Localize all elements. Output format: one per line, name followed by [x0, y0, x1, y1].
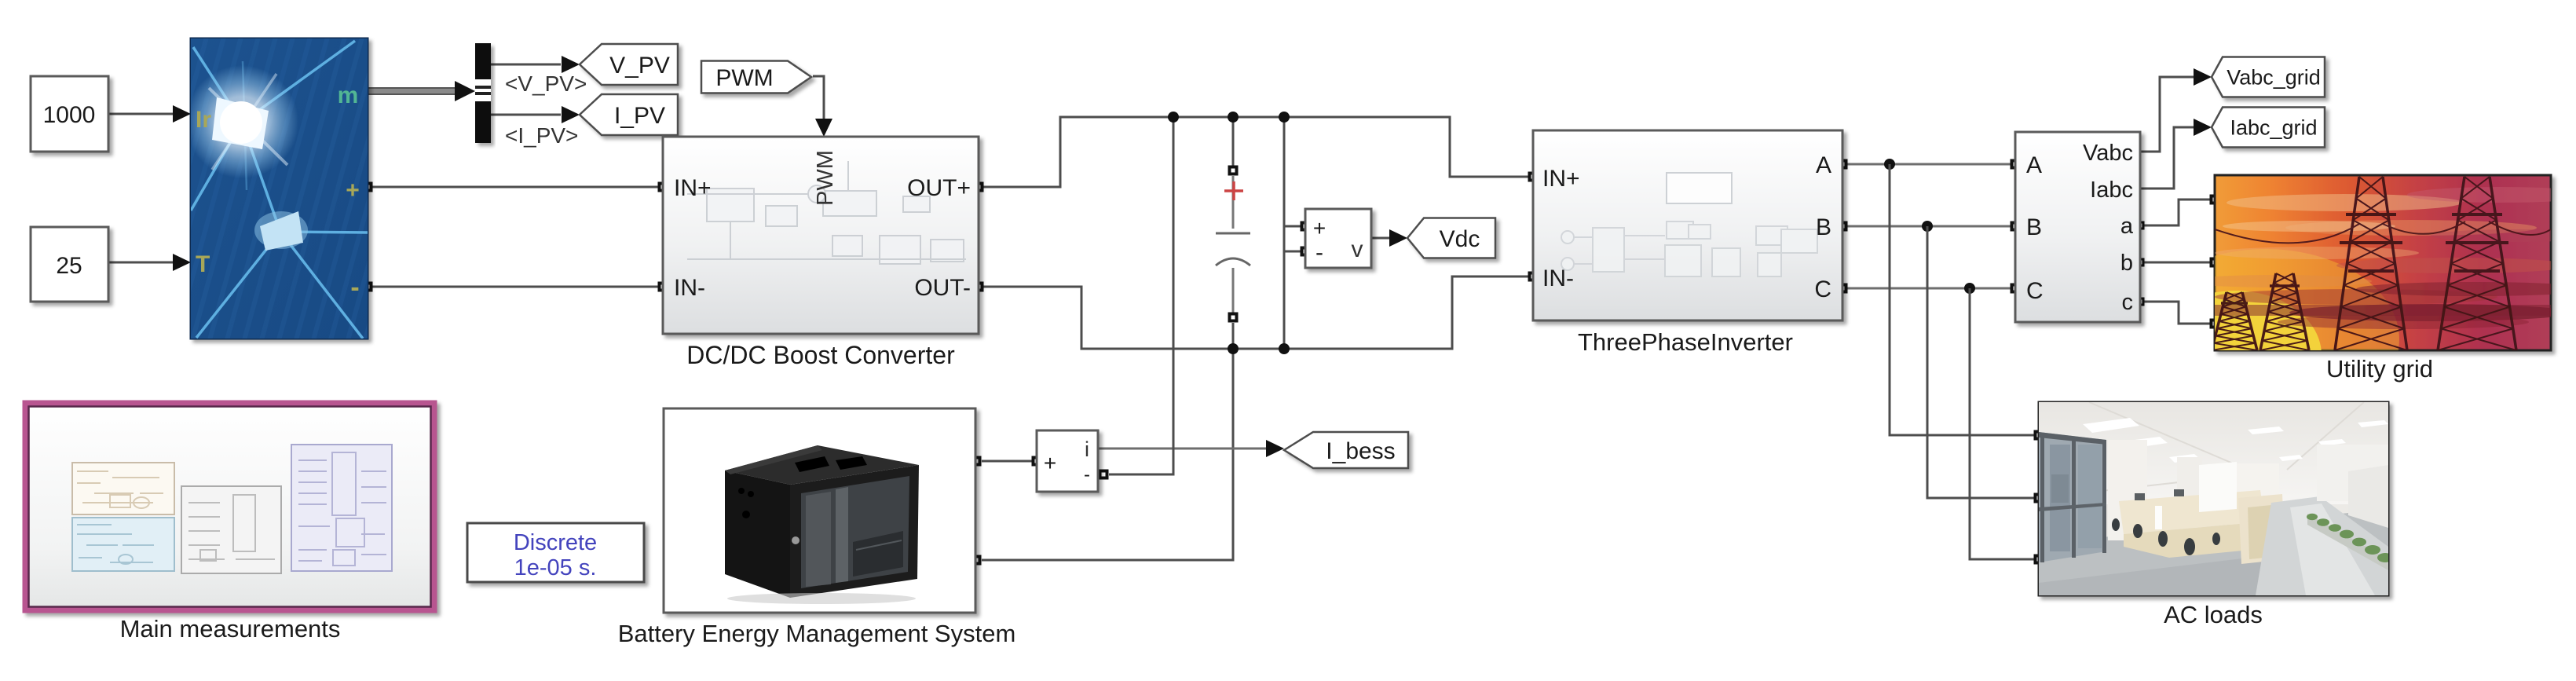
svg-text:V_PV: V_PV [609, 53, 670, 79]
svg-text:<I_PV>: <I_PV> [505, 123, 578, 148]
svg-text:I_PV: I_PV [614, 103, 665, 129]
svg-text:IN-: IN- [674, 275, 705, 301]
svg-text:-: - [350, 273, 359, 302]
svg-text:Vdc: Vdc [1440, 226, 1480, 252]
svg-text:c: c [2122, 290, 2134, 315]
svg-text:B: B [1816, 214, 1831, 240]
svg-text:a: a [2120, 214, 2134, 239]
svg-text:DC/DC Boost Converter: DC/DC Boost Converter [686, 341, 955, 369]
svg-text:-: - [1084, 464, 1090, 485]
svg-text:Vabc: Vabc [2083, 141, 2133, 166]
svg-text:Iabc_grid: Iabc_grid [2230, 116, 2317, 140]
svg-text:I_bess: I_bess [1326, 438, 1395, 464]
svg-text:b: b [2120, 251, 2133, 276]
svg-text:Battery Energy Management Syst: Battery Energy Management System [618, 620, 1016, 647]
svg-text:Ir: Ir [196, 107, 211, 133]
svg-text:m: m [338, 82, 359, 108]
svg-text:A: A [1816, 152, 1831, 178]
svg-text:Iabc: Iabc [2090, 178, 2133, 203]
svg-text:IN+: IN+ [1542, 166, 1580, 192]
svg-text:AC loads: AC loads [2164, 601, 2263, 628]
svg-text:ThreePhaseInverter: ThreePhaseInverter [1578, 328, 1793, 356]
svg-text:Utility grid: Utility grid [2326, 355, 2433, 383]
svg-text:IN-: IN- [1542, 265, 1574, 291]
svg-text:T: T [196, 251, 210, 277]
svg-text:25: 25 [56, 253, 82, 279]
svg-text:1e-05 s.: 1e-05 s. [514, 555, 597, 580]
svg-text:<V_PV>: <V_PV> [505, 71, 587, 96]
svg-text:C: C [2026, 278, 2044, 304]
svg-text:+: + [1313, 216, 1326, 240]
svg-text:C: C [1814, 276, 1831, 302]
svg-text:OUT+: OUT+ [907, 175, 971, 201]
svg-text:1000: 1000 [43, 102, 96, 128]
svg-text:IN+: IN+ [674, 175, 712, 201]
svg-text:Vabc_grid: Vabc_grid [2227, 66, 2321, 90]
svg-text:Main measurements: Main measurements [120, 615, 341, 643]
svg-text:PWM: PWM [813, 150, 838, 206]
svg-text:B: B [2026, 214, 2042, 240]
svg-text:OUT-: OUT- [914, 275, 971, 301]
svg-text:PWM: PWM [715, 65, 773, 91]
svg-text:A: A [2026, 152, 2042, 178]
svg-text:v: v [1352, 236, 1363, 262]
svg-text:i: i [1085, 438, 1089, 461]
svg-text:+: + [1044, 451, 1056, 475]
svg-text:Discrete: Discrete [514, 530, 597, 555]
svg-text:+: + [346, 178, 360, 203]
svg-text:-: - [1315, 240, 1323, 265]
